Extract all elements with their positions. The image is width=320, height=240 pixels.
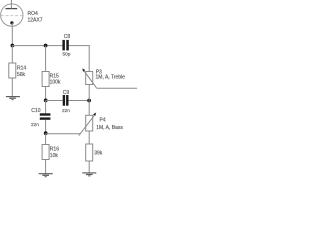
wire P4 bottom to 39k [88,131,90,144]
svg-text:1M, A, Bass: 1M, A, Bass [96,125,123,131]
P4 wiper arrow from lower bus [79,113,96,136]
tube grid (dashed) [1,15,23,17]
wire P3 bottom to junction [88,85,90,116]
resistor 39k [86,144,103,161]
svg-text:C8: C8 [64,34,71,40]
wire output from P3 wiper [97,87,138,89]
tube cathode junction dot [10,21,13,24]
wire lower bus to P4 wiper [46,133,81,135]
node right bus junction [87,99,91,103]
ground under R14 [6,97,20,100]
svg-text:P4: P4 [100,118,106,124]
svg-text:12AX7: 12AX7 [28,17,43,23]
ground under R16 [39,174,53,177]
node lower bus junction [44,131,48,135]
triode tube RO4 12AX7 envelope [1,4,23,26]
svg-text:10k: 10k [50,153,59,159]
resistor R15 100k [42,72,61,87]
svg-text:R14: R14 [17,65,26,71]
svg-text:1M, A, Treble: 1M, A, Treble [96,75,126,81]
capacitor C10 22n [31,101,50,128]
node middle bus left junction [44,99,48,103]
ground under 39k [82,173,96,176]
svg-text:56k: 56k [17,72,26,78]
svg-text:100k: 100k [50,79,61,85]
wire C9 to right junction [69,100,90,102]
svg-text:39k: 39k [94,150,103,156]
wire R16 to ground [45,160,47,174]
wire C10 down to lower bus [45,120,47,134]
wire middle bus to C9 [46,100,63,102]
svg-text:22n: 22n [62,108,70,113]
potentiometer P4 1M A Bass body [86,115,124,131]
wire junction down to R15 [45,46,47,72]
resistor R16 10k [42,134,59,160]
capacitor C9 22n [62,90,70,113]
wire R14 to ground [11,78,13,97]
node junction dot at R15 tap [44,44,48,48]
capacitor C8 50p [62,34,70,57]
P3 wiper arrow [82,68,96,88]
svg-text:C10: C10 [31,108,40,114]
wire right corner down to P3 [88,45,90,71]
svg-text:50p: 50p [63,52,71,57]
svg-text:C9: C9 [63,90,70,96]
wire 39k to ground [88,161,90,173]
svg-text:R16: R16 [50,146,59,152]
wire cathode lead down [11,23,13,46]
svg-text:22n: 22n [31,122,39,127]
potentiometer P3 1M A Treble body [86,69,125,84]
svg-text:RO4: RO4 [28,11,39,17]
wire R15 to middle bus [45,87,47,101]
wire top horizontal to C8 [12,45,62,47]
node cathode junction dot [11,44,15,48]
tube label RO4 12AX7 [28,11,43,23]
svg-text:R15: R15 [50,73,59,79]
resistor R14 56k [9,46,27,78]
wire C8 to right corner [69,45,90,47]
tube plate (anode) with lead up [6,0,18,9]
